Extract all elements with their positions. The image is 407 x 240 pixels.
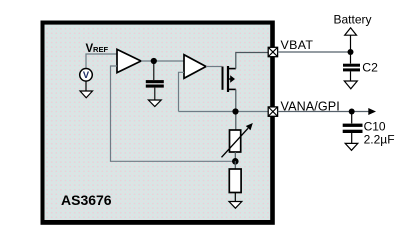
wire U2 output to gate	[206, 66, 222, 68]
label VBAT	[281, 38, 314, 52]
label VANA/GPI	[281, 100, 340, 114]
pin VBAT	[268, 47, 277, 56]
voltage source V	[80, 69, 93, 82]
IC AS3676 body fill	[45, 25, 271, 220]
ground (C10)	[345, 143, 358, 150]
label C2	[362, 61, 378, 75]
wire node to C10	[351, 112, 353, 124]
wire node to C2	[350, 52, 352, 64]
wire U2 feedback	[179, 72, 185, 111]
resistor R2	[229, 169, 241, 193]
svg-text:VBAT: VBAT	[281, 38, 314, 52]
ground (C2)	[344, 81, 357, 89]
wire C10 to ground	[351, 133, 353, 144]
arrow VANA output	[368, 108, 376, 115]
wire VANA/GPI net	[179, 111, 270, 113]
capacitor C2	[343, 64, 360, 72]
IC AS3676 body border	[41, 21, 275, 225]
battery arrow up	[345, 28, 357, 52]
wire C2 to ground	[350, 71, 352, 81]
svg-text:2.2µF: 2.2µF	[364, 133, 395, 147]
wire node to capacitor C1	[153, 61, 155, 80]
node feedback tap	[232, 158, 239, 165]
label 2.2uF	[364, 133, 395, 147]
svg-text:Battery: Battery	[334, 13, 372, 27]
op-amp U2	[184, 55, 206, 79]
svg-text:REF: REF	[93, 45, 109, 54]
wire Q1 drain to VBAT pin	[236, 53, 269, 69]
svg-text:V: V	[83, 70, 90, 80]
op-amp buffer U1	[117, 49, 141, 72]
node U1 output	[151, 58, 157, 64]
transistor Q1 (NMOS)	[223, 66, 236, 92]
node battery/C2	[348, 49, 354, 55]
ground (C1)	[148, 100, 161, 107]
wire C1 to ground	[154, 88, 156, 100]
node source/VANA	[232, 108, 238, 114]
variable resistor R1	[222, 123, 253, 157]
pin VANA/GPI	[268, 107, 277, 116]
label VREF	[86, 43, 109, 55]
svg-text:C10: C10	[364, 120, 386, 134]
label C10	[364, 120, 386, 134]
wire source to ground	[85, 81, 87, 91]
ground (R2)	[229, 202, 242, 209]
label AS3676	[61, 192, 112, 208]
wire Q1 source down through VANA node to variable resistor	[235, 89, 237, 130]
wire VBAT pin to battery node	[278, 51, 351, 53]
svg-text:C2: C2	[362, 61, 378, 75]
wire R1 to node	[234, 152, 236, 161]
wire U1 feedback	[111, 66, 234, 161]
wire VANA pin to output arrow	[278, 111, 369, 113]
ground (voltage source)	[80, 91, 93, 98]
wire node to resistor R2	[234, 161, 236, 169]
wire U1 output to U2 input	[141, 60, 184, 62]
label Battery	[334, 13, 372, 27]
svg-text:AS3676: AS3676	[61, 192, 112, 208]
wire VREF source to buffer input	[86, 54, 117, 70]
capacitor C1	[146, 80, 164, 88]
capacitor C10	[343, 124, 363, 133]
node C10	[349, 109, 355, 115]
wire R2 to ground	[234, 193, 236, 202]
